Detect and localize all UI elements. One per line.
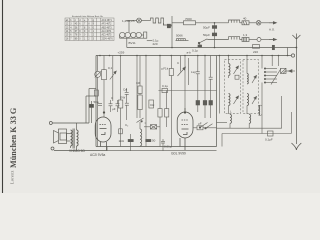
svg-text:µF1k: µF1k xyxy=(162,67,169,71)
svg-text:Lsp: Lsp xyxy=(191,70,196,74)
svg-text:München K 33 G: München K 33 G xyxy=(9,107,18,168)
svg-text:AL4 4674: AL4 4674 xyxy=(102,30,113,33)
svg-text:220: 220 xyxy=(253,50,258,54)
svg-text:1,25/0,25: 1,25/0,25 xyxy=(122,19,135,23)
svg-text:40: 40 xyxy=(243,17,247,21)
svg-text:AB2 4673: AB2 4673 xyxy=(102,26,113,29)
svg-text:+259: +259 xyxy=(118,51,125,55)
svg-text:0,1µ: 0,1µ xyxy=(162,84,168,88)
svg-text:AC2 4671: AC2 4671 xyxy=(102,19,113,22)
svg-text:GW: GW xyxy=(120,96,125,100)
svg-text:AC2l 9V5a: AC2l 9V5a xyxy=(90,153,105,157)
svg-text:0,1µF: 0,1µF xyxy=(265,138,273,142)
svg-text:1M: 1M xyxy=(136,81,141,85)
svg-text:BV11: BV11 xyxy=(129,41,136,45)
svg-text:220V 4676: 220V 4676 xyxy=(102,38,114,40)
svg-text:7000: 7000 xyxy=(185,17,192,21)
svg-text:0,1: 0,1 xyxy=(108,66,113,70)
svg-text:Lorenz: Lorenz xyxy=(10,170,15,184)
svg-text:50µF: 50µF xyxy=(203,33,210,37)
svg-text:AZ1 4675: AZ1 4675 xyxy=(102,34,113,37)
svg-text:A.Ü.: A.Ü. xyxy=(269,28,275,32)
svg-text:1kΩ: 1kΩ xyxy=(119,139,125,143)
svg-text:VHB3Ω 5Ω: VHB3Ω 5Ω xyxy=(69,149,85,153)
svg-text:GDL 9V99: GDL 9V99 xyxy=(171,152,186,156)
svg-text:Ersatzteil-Liste Röhren Best: Ersatzteil-Liste Röhren Best.-Nr. xyxy=(72,15,104,18)
svg-text:50: 50 xyxy=(152,139,156,143)
svg-text:5066: 5066 xyxy=(176,34,183,38)
svg-text:0,1µ: 0,1µ xyxy=(192,49,198,53)
svg-text:50µF: 50µF xyxy=(203,26,210,30)
svg-text:50µ: 50µ xyxy=(94,100,99,104)
svg-text:AF3 4672: AF3 4672 xyxy=(102,23,113,26)
svg-text:CH: CH xyxy=(150,103,154,107)
svg-text:Ca: Ca xyxy=(123,88,127,92)
svg-text:µF: µF xyxy=(198,122,202,126)
svg-text:a-b: a-b xyxy=(187,51,192,55)
svg-text:220: 220 xyxy=(153,42,158,46)
svg-text:1,3: 1,3 xyxy=(243,33,248,37)
svg-text:µF: µF xyxy=(112,107,116,111)
svg-text:0,01µ: 0,01µ xyxy=(164,145,172,149)
